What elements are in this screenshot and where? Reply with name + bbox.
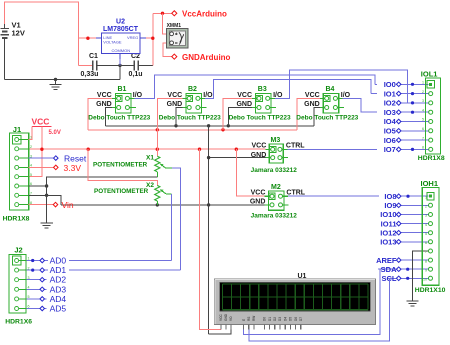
svg-text:6: 6 xyxy=(425,241,427,245)
svg-text:3: 3 xyxy=(28,276,30,280)
svg-text:M2: M2 xyxy=(271,184,281,191)
svg-text:1: 1 xyxy=(422,81,424,85)
wire battery V1 plus to U2 input xyxy=(4,2,78,65)
svg-text:GND: GND xyxy=(304,101,320,108)
svg-text:7: 7 xyxy=(422,136,424,140)
wire IO1 line xyxy=(371,93,429,95)
junction VccArduino XMM1 xyxy=(161,12,164,15)
svg-text:IOH1: IOH1 xyxy=(421,179,439,188)
svg-text:E: E xyxy=(242,319,246,321)
junction C1 C2 common xyxy=(118,64,121,67)
node IO9 xyxy=(384,201,401,210)
svg-text:RS: RS xyxy=(247,317,251,321)
svg-text:D0: D0 xyxy=(263,317,267,321)
svg-text:AD5: AD5 xyxy=(50,304,67,314)
node Reset xyxy=(54,153,87,163)
wire B4 GND xyxy=(314,108,320,126)
svg-text:GND: GND xyxy=(167,101,183,108)
wire B1 IO to IO0 xyxy=(135,75,376,98)
svg-text:I/O: I/O xyxy=(133,92,143,99)
svg-text:2: 2 xyxy=(28,266,30,270)
svg-text:IO13: IO13 xyxy=(380,238,396,247)
wire B4 VCC xyxy=(297,98,320,129)
junction sensor VCC rail B3 xyxy=(221,128,224,131)
svg-text:X1: X1 xyxy=(146,155,154,162)
junction sensor VCC rail B2 xyxy=(156,128,159,131)
wire B3 GND xyxy=(228,108,252,126)
wire U2 common to junction xyxy=(119,59,121,65)
svg-text:I/O: I/O xyxy=(341,92,351,99)
svg-text:2: 2 xyxy=(422,90,424,94)
svg-text:I/O: I/O xyxy=(273,92,283,99)
wire J1 pin7 gnd xyxy=(29,194,47,196)
svg-text:D5: D5 xyxy=(289,317,293,321)
wire LCD E to SDA xyxy=(244,269,380,334)
svg-text:SDA: SDA xyxy=(381,265,397,274)
wire LCD GND feed xyxy=(209,330,231,334)
node IO1 xyxy=(377,89,414,98)
wire J1 pin1 to VCC bar xyxy=(29,127,32,140)
svg-text:Debo Touch TTP223: Debo Touch TTP223 xyxy=(88,115,150,122)
wire XMM1 plus xyxy=(163,13,170,34)
svg-text:VOLTAGE: VOLTAGE xyxy=(103,40,122,45)
power VCC 5.0V symbol xyxy=(32,117,61,136)
wire 5V rail xyxy=(29,148,266,150)
junction pin6 gnd xyxy=(45,184,48,187)
svg-text:B1: B1 xyxy=(118,86,127,93)
svg-text:AD0: AD0 xyxy=(50,256,67,266)
wire IO13 line xyxy=(396,241,429,243)
junction rail LCD feed xyxy=(198,148,201,151)
wire AD1 line xyxy=(26,269,181,271)
wire IO2 line xyxy=(396,102,429,104)
wire IOH1 pin7 to ground xyxy=(413,251,429,301)
svg-text:IOL1: IOL1 xyxy=(421,69,438,78)
wire B1 VCC xyxy=(88,98,112,129)
svg-text:VCC: VCC xyxy=(32,117,50,127)
svg-text:VCC: VCC xyxy=(167,92,182,99)
svg-text:AD1: AD1 xyxy=(50,265,67,275)
svg-text:POTENTIOMETER: POTENTIOMETER xyxy=(94,188,149,195)
junction bottom rail X2 xyxy=(156,203,159,206)
node VccArduino xyxy=(172,10,227,19)
svg-text:9: 9 xyxy=(425,268,427,272)
wire IO0 line xyxy=(375,83,428,85)
svg-text:10: 10 xyxy=(423,278,427,282)
ground symbol 1 xyxy=(49,79,61,89)
svg-text:IO9: IO9 xyxy=(384,201,396,210)
svg-text:6: 6 xyxy=(28,305,30,309)
svg-text:D7: D7 xyxy=(299,317,303,321)
svg-text:LM7805CT: LM7805CT xyxy=(103,26,139,33)
svg-text:4: 4 xyxy=(28,286,30,290)
svg-text:3.3V: 3.3V xyxy=(64,163,82,173)
node IO11 xyxy=(381,219,401,228)
junction rail M2 feed xyxy=(235,148,238,151)
svg-text:6: 6 xyxy=(422,127,424,131)
svg-text:VccArduino: VccArduino xyxy=(182,10,227,19)
wire LCD VCC feed xyxy=(200,149,222,329)
svg-text:IO2: IO2 xyxy=(384,99,396,108)
svg-text:VREG: VREG xyxy=(127,35,138,40)
wire IO6 line xyxy=(396,139,429,141)
wire M2 CTRL to IO8 xyxy=(288,195,429,197)
wire X2 top feed xyxy=(88,149,157,185)
node IO7 xyxy=(377,145,414,154)
svg-text:POTENTIOMETER: POTENTIOMETER xyxy=(93,162,148,169)
wire C1 C2 junction to ground rail xyxy=(119,65,121,79)
node 3.3V xyxy=(54,163,82,173)
svg-text:7: 7 xyxy=(425,250,427,254)
svg-text:D1: D1 xyxy=(268,317,272,321)
svg-text:IO12: IO12 xyxy=(380,228,396,237)
wire IO11 line xyxy=(396,223,429,225)
junction rail VCC stem xyxy=(40,148,43,151)
junction sensor GND rail main drop xyxy=(207,124,210,127)
multimeter XMM1 xyxy=(167,23,188,48)
wire main GND drop to LCD xyxy=(208,126,210,334)
svg-text:AD3: AD3 xyxy=(50,284,67,294)
wire J1 pin4 3.3V xyxy=(29,166,54,168)
wire B3 IO to IO2 xyxy=(275,70,408,103)
wire AREF line xyxy=(396,259,429,261)
svg-text:GNDArduino: GNDArduino xyxy=(182,53,231,62)
svg-text:8: 8 xyxy=(425,259,427,263)
wire IO10 line xyxy=(396,214,429,216)
connector IOH1 HDR1X10 xyxy=(415,179,446,294)
svg-text:VCC: VCC xyxy=(251,189,266,196)
svg-text:RW: RW xyxy=(252,316,256,321)
svg-text:2: 2 xyxy=(425,205,427,209)
svg-text:IO8: IO8 xyxy=(384,192,396,201)
svg-text:GND: GND xyxy=(250,199,266,206)
node IO8 xyxy=(379,192,410,201)
svg-text:AD4: AD4 xyxy=(50,294,67,304)
node IO10 xyxy=(380,210,401,219)
connector IOL1 HDR1X8 xyxy=(418,69,445,162)
svg-text:U2: U2 xyxy=(116,19,125,26)
svg-text:D2: D2 xyxy=(273,317,277,321)
svg-text:5: 5 xyxy=(425,232,427,236)
touch sensor B2 xyxy=(159,86,221,122)
svg-text:GND: GND xyxy=(96,101,112,108)
svg-text:D6: D6 xyxy=(294,317,298,321)
wire pin7 to bottom gnd rail xyxy=(47,195,62,205)
svg-text:4: 4 xyxy=(422,108,424,112)
servo M3 xyxy=(251,137,306,174)
svg-text:1: 1 xyxy=(425,195,427,199)
potentiometer X2 xyxy=(94,182,172,205)
svg-text:GND: GND xyxy=(236,101,252,108)
wire VccArduino xyxy=(153,12,172,14)
wire J1 pin6 gnd xyxy=(29,185,47,187)
wire J1 pin8 Vin xyxy=(29,204,53,206)
wire AD3 stub xyxy=(26,288,46,290)
wire ground rail xyxy=(4,78,120,80)
node IO0 xyxy=(377,80,414,89)
svg-text:5: 5 xyxy=(422,118,424,122)
battery V1 xyxy=(1,21,25,38)
node IO13 xyxy=(380,238,401,247)
node IO12 xyxy=(380,228,401,237)
svg-text:IO11: IO11 xyxy=(381,219,397,228)
svg-text:Debo Touch TTP223: Debo Touch TTP223 xyxy=(159,115,221,122)
wire B3 VCC xyxy=(223,98,252,129)
svg-text:VCC: VCC xyxy=(252,143,267,150)
node IO2 xyxy=(377,99,414,108)
svg-text:8: 8 xyxy=(422,146,424,150)
svg-text:HDR1X10: HDR1X10 xyxy=(415,287,446,294)
svg-text:0,33u: 0,33u xyxy=(81,71,99,78)
svg-text:IO6: IO6 xyxy=(384,136,396,145)
svg-text:HDR1X6: HDR1X6 xyxy=(5,319,32,326)
wire M3 CTRL to IO7 xyxy=(287,148,428,150)
wire sensor VCC rail xyxy=(88,129,297,131)
node IO6 xyxy=(377,136,401,145)
svg-text:VCC: VCC xyxy=(305,92,320,99)
svg-text:COMMON: COMMON xyxy=(111,48,130,53)
wire SDA line xyxy=(378,268,429,270)
svg-text:5.0V: 5.0V xyxy=(49,130,61,136)
svg-text:VCC: VCC xyxy=(237,92,252,99)
svg-text:Debo Touch TTP223: Debo Touch TTP223 xyxy=(229,115,291,122)
svg-text:D4: D4 xyxy=(283,317,287,321)
svg-text:M3: M3 xyxy=(271,137,281,144)
svg-text:B2: B2 xyxy=(188,86,197,93)
junction sensor GND rail B3 xyxy=(227,124,230,127)
svg-text:AD2: AD2 xyxy=(50,275,67,285)
svg-text:IO4: IO4 xyxy=(384,117,397,126)
svg-text:3: 3 xyxy=(425,214,427,218)
wire IO9 line xyxy=(396,204,429,206)
node SCL xyxy=(382,274,410,283)
junction sensor GND rail B2 xyxy=(174,124,177,127)
junction rail B2 drop xyxy=(156,148,159,151)
wire IO5 line xyxy=(396,130,429,132)
svg-text:0,1u: 0,1u xyxy=(129,71,143,78)
svg-text:IO7: IO7 xyxy=(384,145,396,154)
servo M2 xyxy=(250,184,306,220)
wire X1 wiper to AD1 xyxy=(172,168,180,270)
node IO5 xyxy=(377,127,401,136)
svg-text:Reset: Reset xyxy=(64,153,87,163)
touch sensor B3 xyxy=(229,86,291,122)
svg-text:5: 5 xyxy=(30,173,32,177)
svg-text:Jamara 033212: Jamara 033212 xyxy=(251,167,298,174)
svg-text:IO1: IO1 xyxy=(384,89,396,98)
wire XMM1 minus to GNDArduino xyxy=(163,43,172,57)
svg-text:CTRL: CTRL xyxy=(286,143,305,150)
capacitor C2 xyxy=(120,53,153,78)
wire AD0 line xyxy=(26,260,172,262)
svg-text:HDR1X8: HDR1X8 xyxy=(3,216,30,223)
svg-text:D3: D3 xyxy=(278,317,282,321)
wire J1 pin3 Reset xyxy=(29,157,54,159)
node Vin xyxy=(53,200,74,210)
wire battery minus down xyxy=(3,38,5,80)
wire X1 bottom return xyxy=(47,177,158,223)
wire B2 GND xyxy=(176,108,182,126)
svg-text:C1: C1 xyxy=(89,53,98,60)
svg-text:IO5: IO5 xyxy=(384,127,396,136)
junction AD0 xyxy=(31,259,34,262)
junction bottom rail LCD gnd drop xyxy=(207,203,210,206)
node AD0 xyxy=(40,256,69,266)
connector J2 HDR1X6 xyxy=(5,246,32,326)
svg-text:IO10: IO10 xyxy=(380,210,396,219)
wire IO4 line xyxy=(396,121,429,123)
node IO3 xyxy=(377,108,414,117)
svg-text:IO3: IO3 xyxy=(384,108,396,117)
lcd display U1 xyxy=(215,273,376,330)
wire B4 IO to IO3 xyxy=(343,98,429,112)
junction ground rail xyxy=(54,78,57,81)
node AD1 xyxy=(40,265,69,275)
svg-text:4: 4 xyxy=(425,223,427,227)
op regulator U2 LM7805CT xyxy=(96,19,146,60)
wire B2 VCC xyxy=(157,98,182,149)
svg-text:IO0: IO0 xyxy=(384,80,396,89)
junction M3 GND drop xyxy=(207,156,210,159)
svg-text:B4: B4 xyxy=(326,86,335,93)
node AD3 xyxy=(40,284,66,294)
wire X2 wiper to AD0 xyxy=(171,194,173,261)
node AREF xyxy=(376,256,401,265)
ground symbol 2 xyxy=(40,223,52,228)
svg-text:1: 1 xyxy=(28,257,30,261)
svg-text:VCC: VCC xyxy=(219,314,223,321)
svg-text:VCC: VCC xyxy=(97,92,112,99)
svg-text:Vin: Vin xyxy=(62,200,74,210)
wire bottom gnd rail xyxy=(61,204,265,206)
junction U2 output xyxy=(151,37,154,40)
junction rail X2 feed xyxy=(87,148,90,151)
wire B2 IO to IO1 xyxy=(205,79,371,98)
connector J1 HDR1X8 xyxy=(3,125,32,223)
node IO4 xyxy=(377,117,401,126)
svg-text:J2: J2 xyxy=(14,246,22,255)
svg-text:GND: GND xyxy=(251,152,267,159)
wire VCC stem and J1 pin5 riser xyxy=(29,127,42,177)
wire sensor GND rail xyxy=(106,125,314,127)
touch sensor B1 xyxy=(88,86,150,122)
svg-text:Debo Touch TTP223: Debo Touch TTP223 xyxy=(296,115,358,122)
svg-text:B3: B3 xyxy=(258,86,267,93)
wire U2 output xyxy=(146,13,153,65)
wire SCL line xyxy=(387,277,429,279)
junction U2 input xyxy=(86,37,89,40)
svg-text:C2: C2 xyxy=(131,53,140,60)
svg-text:5: 5 xyxy=(28,295,30,299)
node AD4 xyxy=(40,294,66,304)
svg-text:HDR1X8: HDR1X8 xyxy=(418,155,445,162)
svg-text:GND: GND xyxy=(224,313,228,321)
ground symbol 3 xyxy=(406,301,418,306)
junction AD1 xyxy=(31,269,34,272)
capacitor C1 xyxy=(78,53,120,78)
node GNDArduino xyxy=(172,53,231,62)
svg-text:CTRL: CTRL xyxy=(286,189,305,196)
wire U2 input xyxy=(78,37,101,39)
svg-text:AREF: AREF xyxy=(376,256,397,265)
touch sensor B4 xyxy=(296,86,358,122)
svg-text:2: 2 xyxy=(30,145,32,149)
wire AD2 stub xyxy=(26,279,46,281)
wire IO12 line xyxy=(396,232,429,234)
wire LCD RS to SCL xyxy=(249,278,390,341)
svg-text:I/O: I/O xyxy=(203,92,213,99)
node AD2 xyxy=(40,275,66,285)
wire AD4 stub xyxy=(26,298,46,300)
svg-text:Jamara 033212: Jamara 033212 xyxy=(251,213,298,220)
wire M3 GND xyxy=(209,157,266,159)
wire AD5 stub xyxy=(26,308,46,310)
junction pin7 gnd xyxy=(45,194,48,197)
potentiometer X1 xyxy=(93,149,172,177)
node AD5 xyxy=(40,304,66,314)
svg-text:3: 3 xyxy=(422,99,424,103)
node SDA xyxy=(381,265,410,274)
wire B1 GND xyxy=(106,108,112,126)
svg-text:12V: 12V xyxy=(12,29,25,38)
svg-text:VO: VO xyxy=(229,316,233,321)
wire M2 VCC feed xyxy=(236,149,264,196)
